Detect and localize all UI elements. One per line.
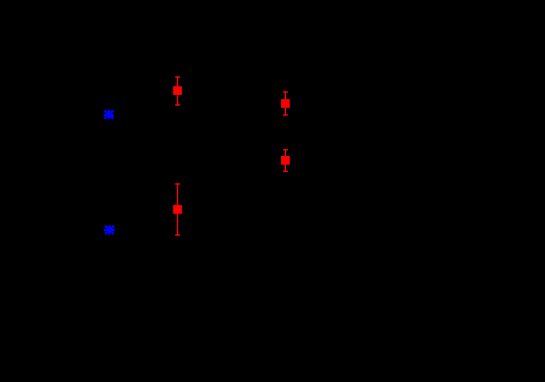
red errorbar point P1 (series 1, square marker with vertical error bar) [173, 77, 182, 105]
red errorbar point P3 (series 1, square marker with vertical error bar) [281, 92, 290, 115]
blue star point S1 (series 2, eight-armed star marker) [104, 110, 114, 119]
red errorbar point P4 (series 1, square marker with vertical error bar) [281, 150, 290, 171]
red errorbar point P2 (series 1, square marker with vertical error bar) [173, 184, 182, 235]
blue star point S2 (series 2, eight-armed star marker) [104, 225, 115, 235]
